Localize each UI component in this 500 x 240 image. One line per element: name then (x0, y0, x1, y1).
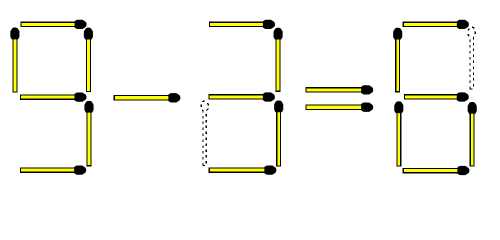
digit 9 middle segment match (20, 94, 79, 100)
digit 3 middle segment match (209, 94, 267, 100)
digit 3 bottom segment match (209, 167, 269, 173)
digit 9 top-right segment match (86, 36, 91, 92)
digit 3 bottom-right segment match (276, 109, 281, 166)
digit 9 bottom-right segment match (87, 110, 92, 167)
digit 3 removed bottom-left match (dotted outline) (201, 101, 208, 166)
digit 6 bottom-right segment match (470, 111, 475, 167)
digit 6 top-left segment match (395, 36, 400, 92)
digit 9 top segment match (21, 22, 79, 28)
equals sign lower match (305, 105, 365, 111)
digit 6 removed top-right match (dotted outline) (468, 27, 475, 89)
minus sign match (114, 95, 173, 101)
digit 3 top-right segment match (276, 36, 281, 91)
digit 3 top segment match (209, 22, 267, 28)
digit 6 bottom-left segment match (396, 110, 401, 167)
digit 9 bottom segment match (20, 167, 78, 173)
equals sign upper match (305, 87, 365, 93)
digit 6 bottom segment match (403, 168, 462, 174)
digit 6 top segment match (403, 22, 461, 28)
digit 9 top-left segment match (12, 36, 17, 92)
digit 6 middle segment match (404, 94, 461, 100)
